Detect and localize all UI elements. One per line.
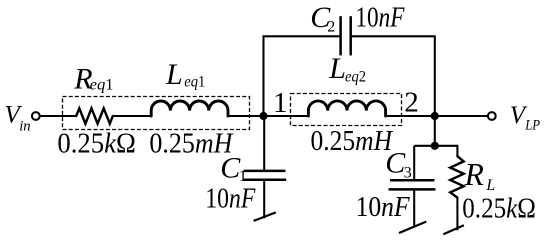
svg-text:in: in bbox=[19, 118, 30, 134]
node 2 junction dot bbox=[431, 112, 439, 120]
wire C3 to ground bbox=[413, 189, 415, 227]
inductor L_eq2 bbox=[308, 101, 385, 116]
wire lower horizontal (C3 junction to R_L corner) bbox=[414, 146, 457, 156]
label L_eq1 bbox=[165, 58, 205, 91]
svg-text:eq1: eq1 bbox=[184, 74, 205, 91]
label Vin bbox=[5, 102, 31, 135]
wire C1 branch down from node 1 bbox=[263, 116, 265, 171]
svg-text:R: R bbox=[464, 157, 484, 192]
label C3 bbox=[385, 147, 412, 182]
capacitor C3 bbox=[389, 180, 436, 189]
terminal Vin bbox=[32, 112, 40, 120]
label R_eq1 bbox=[73, 63, 113, 96]
lower junction dot (below node 2) bbox=[431, 142, 439, 150]
label V_LP bbox=[510, 102, 540, 134]
svg-text:0.25kΩ: 0.25kΩ bbox=[462, 193, 536, 225]
terminal V_LP bbox=[488, 112, 496, 120]
wire C2 over and down to lower junction bbox=[351, 36, 435, 146]
svg-text:2: 2 bbox=[404, 87, 419, 119]
label R_L bbox=[464, 157, 496, 194]
label C1 bbox=[220, 151, 247, 185]
svg-text:eq1: eq1 bbox=[90, 77, 114, 94]
wire L_eq1 to node 1 bbox=[228, 115, 264, 117]
ground (R_L) bbox=[443, 225, 464, 234]
wire node1 up and over to C2 bbox=[264, 36, 341, 116]
wire Vin to R_eq1 bbox=[41, 115, 77, 117]
ground (C1) bbox=[254, 212, 276, 221]
svg-text:L: L bbox=[165, 58, 183, 91]
ground (C3) bbox=[399, 222, 426, 233]
svg-text:eq2: eq2 bbox=[345, 69, 366, 86]
dashed box around R_eq1 and L_eq1 bbox=[63, 97, 250, 130]
svg-text:0.25mH: 0.25mH bbox=[311, 125, 394, 157]
node 1 junction dot bbox=[259, 112, 267, 120]
wire R_eq1 to L_eq1 bbox=[113, 115, 151, 117]
svg-text:10nF: 10nF bbox=[205, 183, 255, 215]
capacitor C1 bbox=[243, 171, 286, 180]
svg-text:10nF: 10nF bbox=[355, 2, 404, 34]
svg-text:LP: LP bbox=[524, 118, 540, 134]
svg-text:1: 1 bbox=[273, 87, 288, 119]
wire L_eq2 to node 2 bbox=[386, 115, 435, 117]
wire C3 branch down bbox=[413, 146, 415, 181]
wire node 2 to V_LP bbox=[435, 115, 487, 117]
label C2 bbox=[310, 1, 335, 35]
resistor R_L bbox=[450, 156, 464, 197]
wire R_L to ground bbox=[456, 198, 458, 231]
svg-text:10nF: 10nF bbox=[356, 191, 410, 223]
resistor R_eq1 bbox=[76, 108, 113, 123]
svg-text:L: L bbox=[485, 177, 495, 194]
svg-text:L: L bbox=[328, 52, 346, 85]
inductor L_eq1 bbox=[151, 101, 228, 116]
dashed box around L_eq2 bbox=[291, 94, 402, 126]
wire C1 to ground bbox=[263, 180, 265, 219]
capacitor C2 bbox=[341, 16, 351, 55]
svg-text:2: 2 bbox=[327, 18, 335, 35]
label L_eq2 bbox=[328, 52, 366, 85]
wire node1 to L_eq2 bbox=[264, 115, 309, 117]
svg-text:0.25kΩ: 0.25kΩ bbox=[57, 127, 135, 159]
